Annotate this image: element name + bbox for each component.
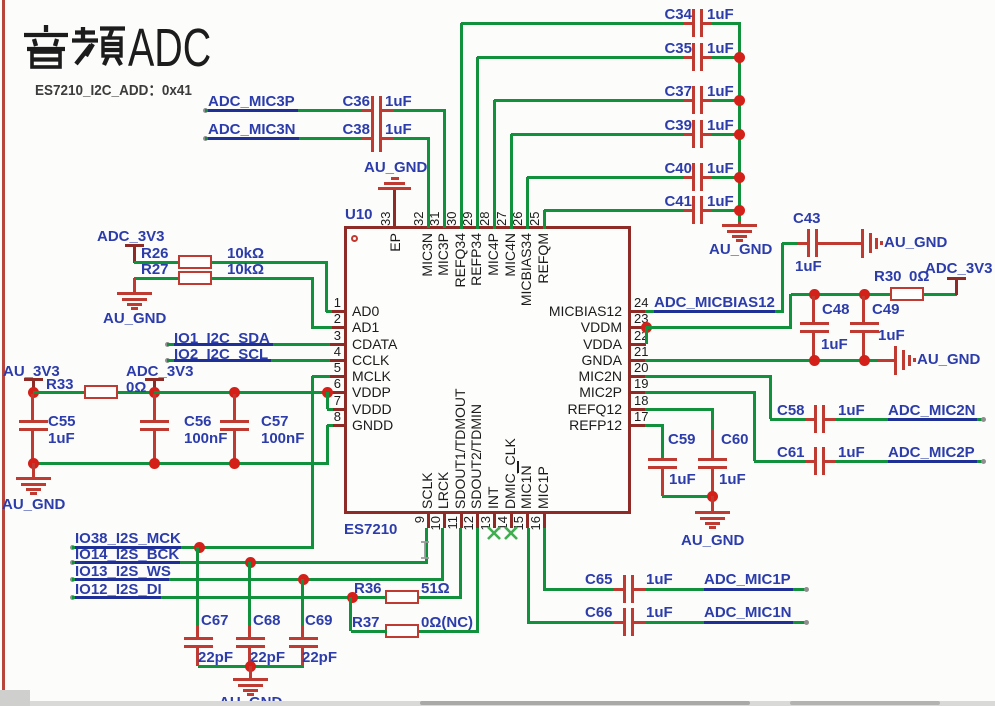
- junction R36/R37 split: [347, 592, 358, 603]
- capacitor C43: [797, 242, 808, 245]
- wire GNDA pin21: [645, 359, 880, 362]
- value C38 1uF: [385, 122, 412, 138]
- U10 pin 4 CCLK: [329, 359, 345, 362]
- junction C68/BCK: [245, 557, 256, 568]
- ground AU_GND (cap bank): [738, 221, 741, 224]
- value C39 1uF: [707, 118, 734, 134]
- wire C58 to ADC_MIC2N: [836, 418, 983, 421]
- wire C40 to AU_GND bus: [711, 176, 741, 179]
- label C49: [872, 302, 900, 318]
- U10 pin 5 MCLK: [329, 375, 345, 378]
- value C40 1uF: [707, 161, 734, 177]
- value R30 0Ω: [909, 269, 929, 285]
- U10 pin 15 MIC1N: [526, 513, 529, 528]
- junction C57 bottom: [229, 458, 240, 469]
- net label IO1_I2C_SDA: [174, 331, 270, 347]
- wire ADC_MIC3N: [205, 137, 362, 140]
- label C36: [340, 94, 370, 110]
- net label ADC_MICBIAS12: [654, 295, 775, 311]
- label R37: [352, 615, 380, 631]
- wire R30 rail: [791, 293, 891, 296]
- net label IO14_I2S_BCK: [75, 547, 179, 563]
- value C56 100nF: [184, 431, 227, 447]
- wire AU_GND bus vertical: [738, 23, 741, 223]
- U10 pin 12 SDOUT2/TDMIN: [476, 513, 479, 528]
- ground AU_GND (GNDA): [894, 346, 897, 375]
- value C65 1uF: [646, 572, 673, 588]
- value C41 1uF: [707, 194, 734, 210]
- wire 3V3 rail: [154, 391, 329, 394]
- wire AU_GND to R27: [134, 277, 179, 280]
- designator U10: [345, 207, 373, 223]
- power ADC_3V3 (R26): [97, 229, 165, 245]
- label C68: [253, 613, 281, 629]
- node IO38_I2S_MCK wire end: [70, 545, 75, 550]
- label C59: [668, 432, 696, 448]
- U10 pin 31 MIC3P: [443, 212, 446, 227]
- wire 22pF ground rail: [198, 665, 304, 668]
- net label ADC_MIC3N: [208, 122, 296, 138]
- U10 pin 11 SDOUT1/TDMOUT: [460, 513, 463, 528]
- value C36 1uF: [385, 94, 412, 110]
- node IO2_I2C_SCL wire end: [165, 358, 170, 363]
- capacitor C69: [301, 579, 304, 626]
- junction C39/bus: [734, 129, 745, 140]
- wire MCLK from IO38_I2S_MCK to pin5: [311, 376, 314, 547]
- junction AU_3V3/C55: [28, 387, 39, 398]
- U10 pin 10 LRCK: [443, 513, 446, 528]
- node ADC_MIC1N wire end: [804, 620, 809, 625]
- junction C60 bottom: [707, 491, 718, 502]
- label C65: [585, 572, 613, 588]
- bottom blur band artifact: [0, 701, 995, 706]
- title 音频ADC (Chinese glyph strokes drawn as SVG): [18, 23, 148, 71]
- wire ground rail to pin8 GNDD: [326, 425, 329, 463]
- wire C61 to ADC_MIC2P: [836, 460, 983, 463]
- node ADC_MIC1P wire end: [804, 587, 809, 592]
- label C67: [201, 613, 229, 629]
- net label IO12_I2S_DI: [75, 582, 162, 598]
- label C34: [655, 7, 692, 23]
- value C48 1uF: [821, 337, 848, 353]
- capacitor C55: [31, 394, 34, 420]
- wire C37 to AU_GND bus: [711, 99, 741, 102]
- wire C66 to ADC_MIC1N: [645, 621, 806, 624]
- U10 pin 7 VDDD: [329, 408, 345, 411]
- U10 pin 26 MICBIAS34: [526, 212, 529, 227]
- junction C56 bottom: [149, 458, 160, 469]
- wire pin 29 to C35: [476, 57, 479, 229]
- capacitor C67: [196, 547, 199, 626]
- sheet border left edge: [2, 0, 5, 706]
- value C55 1uF: [48, 431, 75, 447]
- wire IO2_I2C_SCL: [167, 359, 330, 362]
- U10 pin 13 INT: [493, 513, 496, 528]
- net label IO38_I2S_MCK: [75, 531, 181, 547]
- U10 pin 32 MIC3N: [427, 212, 430, 227]
- value R26 10kΩ: [227, 246, 264, 262]
- capacitor C39: [684, 133, 693, 136]
- wire IO13_I2S_WS: [72, 578, 444, 581]
- junction C67/MCK: [194, 542, 205, 553]
- value C49 1uF: [878, 328, 905, 344]
- capacitor C60: [698, 458, 727, 461]
- label R36: [354, 581, 382, 597]
- U10 pin 19 MIC2P: [630, 391, 646, 394]
- U10 pin 30 REFQ34: [460, 212, 463, 227]
- capacitor C40: [684, 176, 693, 179]
- value R37 0Ω(NC): [421, 615, 473, 631]
- U10 pin 25 REFQM: [543, 212, 546, 227]
- wire GNDA to ground: [878, 359, 895, 362]
- capacitor C34: [684, 22, 693, 25]
- U10 pin 20 MIC2N: [630, 375, 646, 378]
- junction 22pF rail: [245, 661, 256, 672]
- wire to C43: [782, 242, 798, 245]
- value C59 1uF: [669, 472, 696, 488]
- value C58 1uF: [838, 403, 865, 419]
- wire REFQ12 pin18 to C60: [645, 408, 714, 411]
- label C37: [655, 84, 692, 100]
- value C35 1uF: [707, 41, 734, 57]
- part name ES7210: [344, 522, 397, 538]
- junction C37/bus: [734, 95, 745, 106]
- wire AU_3V3 to R33: [33, 391, 84, 394]
- MIC1N active-low overline: [517, 461, 519, 473]
- junction C69/WS: [298, 574, 309, 585]
- label C35: [655, 41, 692, 57]
- wire ADC_MICBIAS12 from pin24: [645, 310, 784, 313]
- node IO1_I2C_SDA wire end: [165, 342, 170, 347]
- wire C61 row: [754, 460, 807, 463]
- wire ground rail: [33, 462, 329, 465]
- capacitor C61: [805, 460, 815, 463]
- label C58: [777, 403, 805, 419]
- no-connect X pin 13: [486, 525, 502, 541]
- wire C34 to AU_GND bus: [711, 22, 741, 25]
- U10 pin 2 AD1: [329, 326, 345, 329]
- capacitor C56: [153, 394, 156, 420]
- value C37 1uF: [707, 84, 734, 100]
- wire MIC1P pin16 to C65 row: [543, 528, 546, 591]
- U10 pin 6 VDDP: [329, 391, 345, 394]
- capacitor C65: [613, 588, 624, 591]
- capacitor C57: [233, 394, 236, 420]
- wire C58 row: [770, 418, 807, 421]
- wire C43 to ground: [827, 242, 862, 245]
- node ADC_MIC3N wire end: [203, 136, 208, 141]
- U10 pin-1 indicator circle: [351, 235, 358, 242]
- power ADC_3V3 (rail): [126, 364, 194, 380]
- U10 pin 23 VDDM: [630, 326, 646, 329]
- value R36 51Ω: [421, 581, 450, 597]
- capacitor C58: [805, 418, 815, 421]
- power ADC_3V3 (R30): [925, 261, 993, 277]
- U10 pin 16 MIC1P: [543, 513, 546, 528]
- node IO12_I2S_DI wire end: [70, 595, 75, 600]
- net label ADC_MIC1P: [704, 572, 791, 588]
- capacitor C38: [362, 137, 372, 140]
- U10 pin 27 MIC4N: [510, 212, 513, 227]
- junction C49 top: [859, 289, 870, 300]
- U10 pin 28 MIC4P: [493, 212, 496, 227]
- node ADC_MIC2P wire end: [981, 459, 986, 464]
- value C66 1uF: [646, 605, 673, 621]
- net label ADC_MIC1N: [704, 605, 792, 621]
- capacitor C36: [362, 109, 372, 112]
- junction C48 top: [809, 289, 820, 300]
- value C67 22pF: [198, 650, 233, 666]
- label R30: [874, 269, 902, 285]
- wire IO12_I2S_DI: [72, 596, 385, 599]
- wire VDDM/VDDA tie: [645, 327, 648, 344]
- net label ADC_MIC3P: [208, 94, 295, 110]
- label C61: [777, 445, 805, 461]
- U10 pin 24 MICBIAS12: [630, 310, 646, 313]
- wire C41 to AU_GND bus: [711, 209, 741, 212]
- value C57 100nF: [261, 431, 304, 447]
- ground AU_GND above pin33 (EP): [393, 190, 396, 212]
- wire ADC_MIC3P: [205, 109, 362, 112]
- label C56: [184, 414, 212, 430]
- junction C41/bus: [734, 205, 745, 216]
- U10 pin 17 REFP12: [630, 424, 646, 427]
- wire IO38_I2S_MCK: [72, 546, 314, 549]
- value C34 1uF: [707, 7, 734, 23]
- no-connect X pin 14: [503, 525, 519, 541]
- resistor R30: [890, 287, 924, 301]
- net label IO2_I2C_SCL: [174, 347, 268, 363]
- label C66: [585, 605, 613, 621]
- value C68 22pF: [250, 650, 285, 666]
- resistor R27: [178, 271, 212, 285]
- junction VDDM pin23: [641, 322, 652, 333]
- wire C35 to AU_GND bus: [711, 56, 741, 59]
- node IO13_I2S_WS wire end: [70, 577, 75, 582]
- label C41: [655, 194, 692, 210]
- wire R37 to pin12: [351, 630, 387, 633]
- net label IO13_I2S_WS: [75, 564, 171, 580]
- capacitor C48: [812, 296, 815, 322]
- capacitor C41: [684, 209, 693, 212]
- node IO14_I2S_BCK wire end: [70, 560, 75, 565]
- ground AU_GND (C59/C60): [711, 496, 714, 511]
- IC U10 ES7210 body: [344, 226, 631, 514]
- capacitor C49: [862, 296, 865, 322]
- wire R36 to pin11: [419, 596, 462, 599]
- U10 pin 8 GNDD: [329, 424, 345, 427]
- value C60 1uF: [719, 472, 746, 488]
- resistor R33: [84, 385, 118, 399]
- junction C48 bottom: [809, 355, 820, 366]
- wire REFP12 pin17 to C59: [645, 424, 664, 427]
- junction C55 bottom: [28, 458, 39, 469]
- wire C39 to AU_GND bus: [711, 133, 741, 136]
- U10 pin 1 AD0: [329, 310, 345, 313]
- label C69: [305, 613, 333, 629]
- U10 pin 33 EP: [393, 211, 396, 227]
- junction ADC_3V3/C56: [149, 387, 160, 398]
- resistor R37: [385, 624, 419, 638]
- wire ADC_3V3 to R26: [134, 261, 179, 264]
- label C55: [48, 414, 76, 430]
- wire C36 to pin31: [393, 109, 446, 112]
- ground AU_GND (rail): [32, 463, 35, 477]
- wire C38 to pin32: [393, 137, 430, 140]
- wire R27 to pin2: [211, 277, 314, 280]
- U10 pin 21 GNDA: [630, 359, 646, 362]
- value C69 22pF: [302, 650, 337, 666]
- text cursor artifact: [419, 540, 431, 560]
- node ADC_MIC2N wire end: [981, 417, 986, 422]
- label C38: [340, 122, 370, 138]
- junction C40/bus: [734, 172, 745, 183]
- wire pin 26 to C40: [526, 177, 529, 229]
- U10 pin 18 REFQ12: [630, 408, 646, 411]
- capacitor C59: [648, 458, 677, 461]
- resistor R36: [385, 590, 419, 604]
- wire C59/C60 ground tie: [662, 495, 713, 498]
- capacitor C37: [684, 99, 693, 102]
- wire to R37: [349, 597, 352, 631]
- junction C49 bottom: [859, 355, 870, 366]
- junction VDDP/VDDD split: [322, 387, 333, 398]
- junction C57 top: [229, 387, 240, 398]
- capacitor C66: [613, 621, 624, 624]
- wire IO1_I2C_SDA: [167, 343, 330, 346]
- wire MIC2N pin20: [645, 375, 772, 378]
- label C40: [655, 161, 692, 177]
- wire VDDM to R30 rail: [646, 326, 792, 329]
- value R33 0Ω: [126, 380, 146, 396]
- label C60: [721, 432, 749, 448]
- power AU_3V3: [3, 364, 60, 380]
- wire pin 25 to C41: [543, 210, 546, 229]
- U10 pin 3 CDATA: [329, 343, 345, 346]
- wire R26 to pin1: [211, 261, 328, 264]
- net label ADC_MIC2P: [888, 445, 975, 461]
- wire MIC2P pin19: [645, 391, 756, 394]
- value C61 1uF: [838, 445, 865, 461]
- label C48: [822, 302, 850, 318]
- wire R33 to ADC_3V3 node: [117, 391, 157, 394]
- wire to pin7 VDDD: [326, 392, 329, 409]
- U10 pin 22 VDDA: [630, 343, 646, 346]
- wire pin 30 to C34: [460, 23, 463, 229]
- label C43: [793, 211, 821, 227]
- resistor R26: [178, 255, 212, 269]
- ground AU_GND (R27): [133, 278, 136, 292]
- wire C65 to ADC_MIC1P: [645, 588, 806, 591]
- junction C35/bus: [734, 52, 745, 63]
- label R33: [46, 377, 74, 393]
- label C39: [655, 118, 692, 134]
- capacitor C35: [684, 56, 693, 59]
- ground AU_GND (22pF rail): [249, 666, 252, 678]
- value R27 10kΩ: [227, 262, 264, 278]
- net label ADC_MIC2N: [888, 403, 976, 419]
- label R26: [141, 246, 169, 262]
- wire R30 to ADC_3V3: [924, 293, 957, 296]
- wire pin 27 to C39: [510, 134, 513, 229]
- node ADC_MIC3P wire end: [203, 108, 208, 113]
- subtitle ES7210_I2C_ADD 0x41: [35, 83, 192, 99]
- U10 pin 14 DMIC_CLK: [510, 513, 513, 528]
- U10 pin 29 REFP34: [476, 212, 479, 227]
- U10 pin 9 SCLK: [427, 513, 430, 528]
- wire IO14_I2S_BCK: [72, 561, 428, 564]
- wire MIC1N pin15 to C66 row: [527, 528, 530, 624]
- capacitor C68: [248, 562, 251, 626]
- label C57: [261, 414, 289, 430]
- value C43 1uF: [795, 259, 822, 275]
- ground AU_GND (C43): [861, 229, 864, 258]
- wire pin 28 to C37: [493, 100, 496, 229]
- label R27: [141, 262, 169, 278]
